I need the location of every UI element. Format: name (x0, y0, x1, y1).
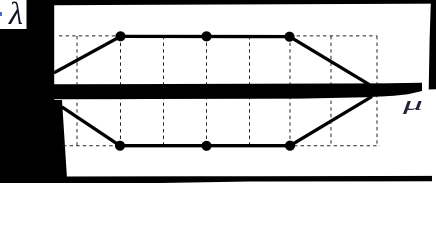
top panel dashed verticals (76, 36, 78, 84)
lambda label (9, 0, 35, 29)
bottom panel dashed verticals (76, 96, 78, 146)
top trapezoid: plateau (119, 35, 290, 38)
lambda white box (0, 0, 27, 29)
dots bottom (115, 141, 125, 151)
top trapezoid: falling line (290, 37, 376, 88)
dots top (115, 31, 125, 41)
bottom plateau (119, 144, 290, 147)
blue tick at left edge (0, 12, 2, 16)
bottom panel grid: dashed horizontal at plateau level (63, 145, 380, 147)
right black strip (429, 0, 436, 90)
bottom curve: falling line (62, 107, 120, 146)
left black margin region (0, 0, 67, 179)
mu label (403, 93, 436, 120)
middle thick black band (54, 83, 422, 100)
top trapezoid: rising line (54, 36, 121, 72)
white page base (0, 0, 436, 183)
bottom rising line (290, 97, 372, 146)
bottom black strip (0, 176, 432, 183)
top black margin strip (0, 0, 436, 5)
top panel grid: dashed horizontal at plateau level (59, 35, 377, 37)
